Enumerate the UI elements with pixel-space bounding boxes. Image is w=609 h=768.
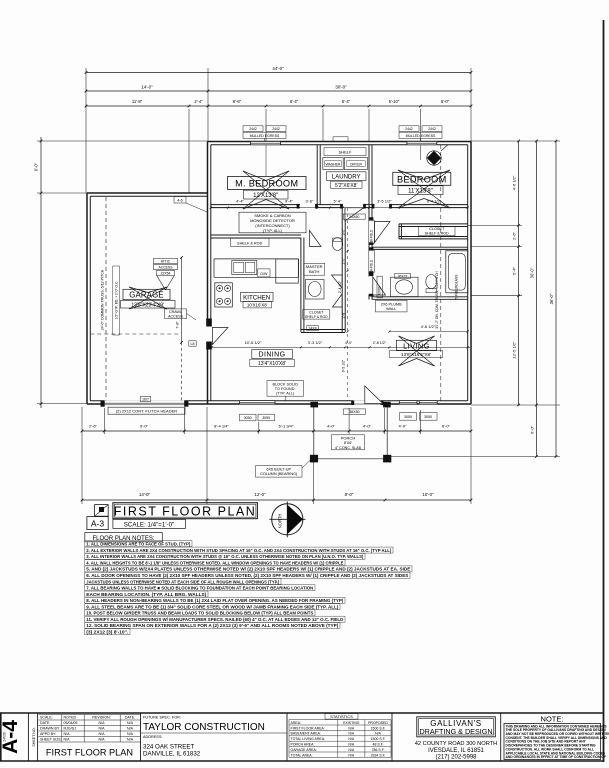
svg-text:3'-6": 3'-6" [305, 199, 314, 204]
svg-text:13'4"X10'X8': 13'4"X10'X8' [258, 361, 286, 367]
svg-text:N/A: N/A [99, 738, 106, 742]
page right border [603, 20, 605, 762]
svg-text:MULLED EGRESS: MULLED EGRESS [250, 134, 280, 138]
svg-text:TO FOUND.: TO FOUND. [275, 387, 296, 391]
garage interior dim line [181, 258, 183, 343]
windows living bottom [399, 400, 417, 404]
left dimension line [40, 137, 42, 408]
svg-text:N/A: N/A [375, 732, 382, 736]
column bearing label [256, 466, 303, 477]
svg-text:SHEET NO.: SHEET NO. [32, 727, 36, 746]
front door opening [353, 400, 381, 405]
svg-text:12'X13'8": 12'X13'8" [253, 193, 278, 199]
svg-text:N/A: N/A [64, 732, 71, 736]
svg-text:1. ALL DIMENSIONS ARE TO FACE: 1. ALL DIMENSIONS ARE TO FACE OF STUD. (… [86, 542, 190, 547]
front door label [343, 409, 365, 414]
svg-text:8. ALL HEADERS IN NON-BEARING: 8. ALL HEADERS IN NON-BEARING WALLS TO B… [86, 598, 343, 603]
svg-text:FUTURE SPEC. FOR:: FUTURE SPEC. FOR: [143, 715, 181, 719]
garage door opening [104, 400, 184, 405]
svg-text:N/A: N/A [99, 721, 106, 725]
svg-text:42 COUNTY ROAD 300 NORTH: 42 COUNTY ROAD 300 NORTH [415, 741, 498, 747]
refrigerator [276, 259, 299, 283]
svg-text:DRAWN BY:: DRAWN BY: [40, 727, 60, 731]
svg-text:N/A: N/A [348, 753, 355, 757]
svg-text:36'-0": 36'-0" [549, 293, 554, 304]
svg-text:5. AND (2) JACKSTUDS W/2X4 PLA: 5. AND (2) JACKSTUDS W/2X4 PLATES UNLESS… [86, 567, 410, 572]
left extension lines [37, 140, 208, 142]
svg-text:PORCH AREA:: PORCH AREA: [291, 743, 315, 747]
bottom dimension line totals [82, 499, 471, 501]
room label KITCHEN [241, 292, 274, 301]
crawl access label [165, 309, 187, 319]
svg-text:3050: 3050 [244, 416, 252, 420]
kitchen dining dim line [212, 346, 471, 348]
svg-text:NOTE:: NOTE: [541, 715, 564, 724]
door swing bedroom [375, 222, 391, 243]
dryer [344, 158, 367, 170]
right dimension line inner [518, 141, 520, 405]
svg-text:IVESDALE, IL 61851: IVESDALE, IL 61851 [428, 748, 484, 754]
svg-text:DRAFTING & DESIGN: DRAFTING & DESIGN [419, 727, 492, 736]
svg-text:10'-0": 10'-0" [422, 492, 434, 497]
window label left [243, 126, 263, 132]
front door swing [365, 386, 383, 404]
svg-text:DATE:: DATE: [125, 716, 135, 720]
svg-text:10. POST BELOW GIRDER TRUSS AN: 10. POST BELOW GIRDER TRUSS AND BEAM LOA… [86, 611, 313, 616]
svg-text:TOTAL LIVING AREA:: TOTAL LIVING AREA: [291, 737, 326, 741]
svg-text:30'-0": 30'-0" [529, 267, 534, 278]
svg-text:6'-6": 6'-6" [233, 99, 242, 104]
svg-text:16/7: 16/7 [142, 397, 149, 401]
svg-text:12'-0": 12'-0" [254, 492, 266, 497]
svg-text:5'-4": 5'-4" [342, 99, 351, 104]
svg-text:(2) 2X12 CONT. FLITCH HEADER: (2) 2X12 CONT. FLITCH HEADER [116, 408, 177, 413]
svg-text:4'-0": 4'-0" [399, 424, 408, 429]
floor plan notes heading [85, 533, 163, 542]
north arrow compass [272, 504, 303, 535]
master bath bottom wall [301, 329, 345, 331]
svg-text:3050: 3050 [404, 415, 412, 419]
smoke detector label [239, 212, 306, 233]
door jamb blocks bifold wall [369, 217, 374, 220]
svg-text:(217) 202-5998: (217) 202-5998 [435, 754, 477, 760]
svg-text:24X8: 24X8 [309, 327, 317, 331]
svg-text:6'-0": 6'-0" [34, 162, 39, 171]
svg-text:2'-4": 2'-4" [194, 99, 203, 104]
svg-text:4'-6 1/2": 4'-6 1/2" [512, 175, 517, 190]
svg-text:3050: 3050 [262, 416, 270, 420]
room label DINING [252, 350, 292, 359]
window extension stubs [264, 139, 266, 142]
svg-text:AREA:: AREA: [291, 721, 302, 725]
svg-text:14'-0": 14'-0" [141, 84, 153, 89]
svg-text:BI-FOLD: BI-FOLD [369, 229, 373, 242]
svg-text:EXISTING: EXISTING [343, 721, 360, 725]
door label L8 [189, 341, 196, 346]
bedroom closet walls [399, 223, 468, 225]
svg-text:2X6 PLUMB: 2X6 PLUMB [381, 302, 402, 306]
window bedroom top [407, 141, 437, 145]
svg-text:N/A: N/A [127, 732, 134, 736]
floor plan notes list [85, 541, 192, 547]
header label 4-6 [174, 197, 186, 204]
svg-text:NOTED: NOTED [64, 716, 77, 720]
svg-text:44'-0": 44'-0" [272, 66, 284, 71]
svg-text:2. ALL EXTERIOR WALLS ARE 2X4: 2. ALL EXTERIOR WALLS ARE 2X4 CONSTRUCTI… [86, 548, 391, 553]
svg-text:TOTAL AREA:: TOTAL AREA: [291, 753, 313, 757]
door swings master bath east wall [332, 275, 343, 288]
garage top exterior wall [87, 192, 208, 194]
laundry shelf [324, 148, 366, 156]
svg-text:WALL: WALL [386, 307, 396, 311]
svg-text:8'X6': 8'X6' [344, 441, 352, 445]
svg-text:N/A: N/A [348, 732, 355, 736]
svg-text:13'8"X16'6"X8': 13'8"X16'6"X8' [401, 352, 431, 357]
svg-text:7'-8": 7'-8" [176, 321, 180, 329]
svg-text:6'-0": 6'-0" [441, 99, 450, 104]
door jamb blocks hall wall [297, 204, 300, 209]
svg-text:PROPOSED: PROPOSED [368, 721, 388, 725]
master bath right / hall left wall [341, 208, 343, 332]
garage-kitchen door opening [206, 327, 213, 342]
house top exterior wall [208, 141, 472, 143]
porch labels [332, 435, 365, 450]
hall wall horizontal [211, 204, 300, 206]
svg-text:N/A: N/A [348, 737, 355, 741]
svg-text:1500 S.F.: 1500 S.F. [371, 726, 386, 730]
attic access boxes [154, 258, 178, 263]
svg-text:4'-0": 4'-0" [363, 424, 372, 429]
svg-text:BATH: BATH [309, 269, 319, 274]
svg-text:2442: 2442 [405, 127, 413, 131]
bath2 bottom / living top wall [372, 296, 468, 298]
flitch header label [108, 407, 185, 414]
svg-text:05/04/05: 05/04/05 [64, 721, 78, 725]
svg-text:FIRST FLOOR PLAN: FIRST FLOOR PLAN [46, 748, 133, 758]
svg-text:48 S.F.: 48 S.F. [373, 743, 384, 747]
laundry right / bedroom left wall [368, 145, 370, 221]
svg-text:L8: L8 [191, 342, 195, 346]
svg-text:GARAGE AREA:: GARAGE AREA: [291, 748, 317, 752]
window M bedroom top [251, 141, 281, 145]
master bath toilet [332, 238, 342, 251]
detail marker square [95, 505, 109, 517]
door swing master bath [310, 231, 322, 247]
svg-text:A-3: A-3 [91, 519, 105, 529]
svg-text:11'X13'8": 11'X13'8" [408, 189, 433, 195]
svg-text:SHEET SIZE: SHEET SIZE [40, 738, 62, 742]
svg-text:COLUMN (BEARING): COLUMN (BEARING) [260, 472, 298, 476]
svg-text:N/A: N/A [99, 727, 106, 731]
living window labels [400, 413, 417, 421]
svg-text:N/A: N/A [127, 721, 134, 725]
bath2 toilet [426, 275, 437, 289]
svg-text:AND ORDINANCES IN EFFECT AT TI: AND ORDINANCES IN EFFECT AT TIME OF CONS… [506, 755, 606, 759]
svg-text:1/2" GYP. BD. + 2'-0" O.C.: 1/2" GYP. BD. + 2'-0" O.C. [114, 281, 118, 320]
svg-text:EACH BEARING LOCATION. (TYP. A: EACH BEARING LOCATION. (TYP. ALL BRG. WA… [86, 592, 206, 597]
svg-text:5'-10": 5'-10" [389, 99, 400, 104]
svg-text:9'-4": 9'-4" [285, 199, 294, 204]
bath2 vanity [391, 277, 419, 296]
svg-text:2442: 2442 [249, 127, 257, 131]
svg-text:N/A: N/A [127, 738, 134, 742]
svg-text:2334 S.F.: 2334 S.F. [371, 753, 386, 757]
svg-text:6X6 BUILT-UP: 6X6 BUILT-UP [266, 467, 291, 471]
svg-text:11'-8": 11'-8" [132, 99, 143, 104]
svg-text:5'-4": 5'-4" [512, 266, 517, 275]
room label M. BEDROOM [243, 171, 289, 209]
living short dim [389, 331, 467, 333]
svg-text:(3) 2X12 (3) 8'-10".: (3) 2X12 (3) 8'-10". [86, 630, 128, 635]
svg-text:ADDRESS:: ADDRESS: [143, 735, 162, 739]
window center lines into rooms [265, 145, 267, 176]
svg-text:FIRST FLOOR AREA:: FIRST FLOOR AREA: [291, 726, 325, 730]
svg-text:6'-0": 6'-0" [529, 425, 534, 434]
top dimension line 44ft [86, 72, 471, 74]
small vent box laundry top wall [333, 137, 348, 142]
svg-text:SHELF & ROD: SHELF & ROD [425, 232, 449, 236]
top dimension line 14ft / 30ft [86, 90, 471, 92]
house left / garage shared wall [207, 142, 209, 405]
svg-text:6'-4": 6'-4" [290, 99, 299, 104]
house bottom exterior wall [87, 403, 471, 405]
svg-text:8'-0": 8'-0" [345, 492, 354, 497]
room label GARAGE [129, 287, 167, 309]
ceiling fan bedroom [427, 151, 441, 165]
svg-text:N/A: N/A [127, 727, 134, 731]
svg-text:LAUNDRY: LAUNDRY [332, 175, 361, 181]
svg-text:10'X16'X8': 10'X16'X8' [247, 303, 268, 308]
plumb wall label [376, 300, 408, 312]
svg-text:2'-8": 2'-8" [342, 311, 346, 319]
svg-text:4'-6 1/2": 4'-6 1/2" [421, 324, 436, 329]
svg-text:D/W: D/W [260, 272, 268, 276]
svg-text:KITCHEN: KITCHEN [243, 295, 270, 302]
svg-text:9. ALL STEEL BEAMS ARE TO BE (: 9. ALL STEEL BEAMS ARE TO BE (1) 3/4" SO… [86, 604, 338, 609]
svg-text:GARAGE: GARAGE [129, 291, 164, 300]
svg-text:ACCESS: ACCESS [168, 314, 183, 318]
svg-text:30'-0": 30'-0" [335, 84, 347, 89]
svg-text:13'8"X23'4"X9': 13'8"X23'4"X9' [131, 302, 164, 308]
svg-text:9'-0": 9'-0" [140, 424, 149, 429]
svg-text:12. SOLID BEARING SPAN ON EXTE: 12. SOLID BEARING SPAN ON EXTERIOR WALLS… [86, 623, 338, 628]
svg-text:6'-0": 6'-0" [442, 424, 451, 429]
window label right [399, 126, 419, 132]
svg-text:DRYER: DRYER [350, 162, 362, 166]
house right exterior wall [470, 142, 472, 405]
svg-text:2'-8 1/2": 2'-8 1/2" [373, 341, 387, 345]
pantry shelf and rod [231, 238, 270, 246]
svg-text:24X80: 24X80 [349, 215, 359, 219]
svg-text:APPD BY:: APPD BY: [40, 732, 56, 736]
svg-text:7. ALL BEARING WALLS TO HAVE ■: 7. ALL BEARING WALLS TO HAVE ■ SOLID BLO… [86, 586, 314, 591]
svg-text:(TYP. ALL): (TYP. ALL) [276, 392, 295, 396]
garage left exterior wall [86, 193, 88, 404]
svg-text:324 OAK STREET: 324 OAK STREET [143, 744, 194, 751]
svg-text:3050: 3050 [424, 415, 432, 419]
room label LIVING [399, 336, 435, 366]
svg-text:BLOCK SOLID: BLOCK SOLID [273, 382, 299, 386]
svg-text:5'-4": 5'-4" [334, 199, 343, 204]
room label LAUNDRY [327, 172, 367, 181]
svg-text:10'-6 1/2": 10'-6 1/2" [245, 340, 262, 345]
svg-text:RJG/SJ: RJG/SJ [64, 727, 77, 731]
svg-text:SHELF & ROD: SHELF & ROD [237, 241, 263, 245]
hall dashed line [347, 208, 349, 401]
svg-text:4'-4": 4'-4" [345, 341, 353, 345]
master bath left wall [300, 238, 302, 333]
door swing bath2 [373, 277, 386, 295]
bath2 top wall [372, 246, 468, 248]
svg-text:30X80: 30X80 [378, 286, 382, 295]
svg-text:MULLED EGRESS: MULLED EGRESS [406, 134, 436, 138]
svg-text:36X80: 36X80 [349, 410, 359, 414]
svg-text:24X36: 24X36 [3, 732, 7, 741]
door jamb blocks front door [351, 401, 354, 405]
bath2 tub [446, 251, 468, 293]
svg-text:2'-6": 2'-6" [512, 231, 517, 240]
closet label bedroom [419, 226, 456, 235]
svg-text:PORCH: PORCH [341, 436, 356, 441]
svg-text:N/A: N/A [348, 748, 355, 752]
svg-text:ACCESS: ACCESS [159, 266, 174, 270]
svg-text:DATE:: DATE: [40, 721, 50, 725]
svg-text:FIRST FLOOR PLAN: FIRST FLOOR PLAN [114, 505, 257, 519]
svg-text:ATTIC: ATTIC [161, 260, 171, 264]
svg-text:4'-4": 4'-4" [236, 199, 245, 204]
svg-text:6. ALL DOOR OPENINGS TO HAVE (: 6. ALL DOOR OPENINGS TO HAVE (2) 2X10 SP… [86, 573, 408, 578]
dining window labels [240, 414, 257, 421]
svg-text:2'-6": 2'-6" [89, 424, 98, 429]
svg-text:5'2"X6'X8': 5'2"X6'X8' [335, 183, 357, 189]
svg-text:SHELF & ROD: SHELF & ROD [305, 315, 328, 319]
garage door size label [140, 396, 151, 401]
svg-text:4-6: 4-6 [177, 199, 183, 203]
svg-text:TAYLOR CONSTRUCTION: TAYLOR CONSTRUCTION [143, 722, 265, 733]
revision table [39, 714, 141, 716]
M bedroom / laundry wall [316, 145, 318, 205]
porch outline [313, 404, 315, 459]
svg-text:5' FIBERGLASS: 5' FIBERGLASS [455, 274, 459, 300]
bottom dimension line segments [82, 430, 471, 432]
plan scale [113, 519, 185, 528]
svg-text:JACKSTUDS UNLESS OTHERWISE NOT: JACKSTUDS UNLESS OTHERWISE NOTED AT EACH… [86, 579, 279, 584]
svg-text:DANVILLE, IL 61832: DANVILLE, IL 61832 [143, 751, 201, 758]
window dining bottom [239, 400, 275, 404]
svg-text:N/A: N/A [348, 743, 355, 747]
svg-text:36X22: 36X22 [398, 275, 408, 279]
svg-text:2'-0": 2'-0" [342, 257, 346, 265]
svg-text:22X54: 22X54 [161, 272, 171, 276]
bottom extension lines [81, 407, 83, 504]
svg-text:STATISTICS: STATISTICS [330, 714, 353, 719]
range / stove [215, 283, 233, 307]
kitchen sink [232, 261, 257, 275]
svg-text:8'-4 1/2": 8'-4 1/2" [427, 199, 442, 204]
svg-text:BASEMENT AREA:: BASEMENT AREA: [291, 732, 322, 736]
gallivan logo [417, 717, 496, 737]
svg-text:NORTH: NORTH [278, 514, 283, 529]
svg-text:11. VERIFY ALL ROUGH OPENINGS: 11. VERIFY ALL ROUGH OPENINGS W/ MANUFAC… [86, 617, 344, 622]
svg-text:24'-0" COMMON TRUSS, 5/12 PITC: 24'-0" COMMON TRUSS, 5/12 PITCH [100, 269, 104, 330]
svg-text:2442: 2442 [428, 127, 436, 131]
svg-text:SCALE:: SCALE: [40, 716, 53, 720]
svg-text:3'-0": 3'-0" [342, 228, 346, 236]
plan title FIRST FLOOR PLAN [113, 503, 258, 519]
svg-text:4. ALL WALL HEIGHTS TO BE 8'-1: 4. ALL WALL HEIGHTS TO BE 8'-1 1/8" UNLE… [86, 560, 343, 565]
svg-text:SHELF: SHELF [339, 149, 352, 154]
door label 30X80 [377, 276, 382, 298]
room label MASTER BATH [304, 263, 325, 275]
svg-text:8'-4 1/4": 8'-4 1/4" [214, 424, 229, 429]
svg-text:30'-0" OH. COM. TRUSS, 5/12 PI: 30'-0" OH. COM. TRUSS, 5/12 PITCH [435, 271, 439, 329]
svg-text:6'-5 1/2": 6'-5 1/2" [342, 359, 346, 372]
pantry wall [211, 234, 301, 236]
kitchen counter [214, 276, 299, 278]
svg-text:N/A: N/A [99, 732, 106, 736]
master bath vanity [306, 280, 325, 300]
statistics table [325, 714, 358, 720]
svg-text:REVISION:: REVISION: [92, 716, 110, 720]
garage truss dashed line [105, 197, 107, 401]
right dimension line 30ft [535, 141, 537, 457]
sheet ref A-3 [87, 517, 108, 530]
block solid label [267, 381, 304, 397]
linen closet [303, 310, 330, 319]
dishwasher [258, 269, 270, 277]
bifold doors hall closets [369, 221, 375, 244]
top dimension line segments [86, 105, 471, 107]
svg-text:6'-1 3/4": 6'-1 3/4" [279, 424, 294, 429]
svg-text:2'-4 1/2": 2'-4 1/2" [338, 280, 342, 293]
svg-text:4" CONC. SLAB: 4" CONC. SLAB [335, 446, 362, 450]
washer [323, 158, 343, 170]
svg-text:1500 S.F.: 1500 S.F. [371, 737, 386, 741]
svg-text:12'-5 1/2": 12'-5 1/2" [512, 341, 517, 358]
svg-text:14'-0": 14'-0" [139, 492, 151, 497]
garage-kitchen door swing [212, 328, 228, 345]
porch posts [310, 455, 318, 463]
svg-text:N/A: N/A [348, 726, 355, 730]
top extension lines [85, 68, 87, 193]
svg-text:SCALE: 1/4"=1'-0": SCALE: 1/4"=1'-0" [124, 521, 174, 528]
svg-text:786 S.F.: 786 S.F. [372, 748, 385, 752]
room label BEDROOM [398, 170, 450, 208]
svg-text:WASHER: WASHER [326, 162, 341, 166]
svg-text:3'-3 1/2": 3'-3 1/2" [308, 340, 323, 345]
title block frame [0, 712, 604, 714]
svg-text:BI-FOLD: BI-FOLD [369, 259, 373, 272]
svg-text:4'-0": 4'-0" [327, 424, 336, 429]
svg-text:(TYP. ALL): (TYP. ALL) [263, 228, 283, 233]
right extension lines [471, 140, 560, 142]
svg-text:BEDROOM: BEDROOM [397, 174, 447, 184]
house truss dashed line [440, 145, 442, 401]
svg-text:M. BEDROOM: M. BEDROOM [235, 179, 298, 189]
right dimension line 36ft [555, 141, 557, 457]
svg-text:DINING: DINING [259, 352, 286, 359]
svg-text:2442: 2442 [272, 127, 280, 131]
svg-text:3'-5 1/2": 3'-5 1/2" [377, 199, 392, 204]
svg-text:3. ALL INTERIOR WALLS ARE 2X4: 3. ALL INTERIOR WALLS ARE 2X4 CONSTRUCTI… [86, 554, 363, 559]
svg-text:N/A: N/A [64, 738, 71, 742]
svg-text:LIVING: LIVING [403, 341, 430, 350]
door swing hall [345, 208, 364, 221]
svg-text:CLOSET: CLOSET [429, 227, 445, 231]
